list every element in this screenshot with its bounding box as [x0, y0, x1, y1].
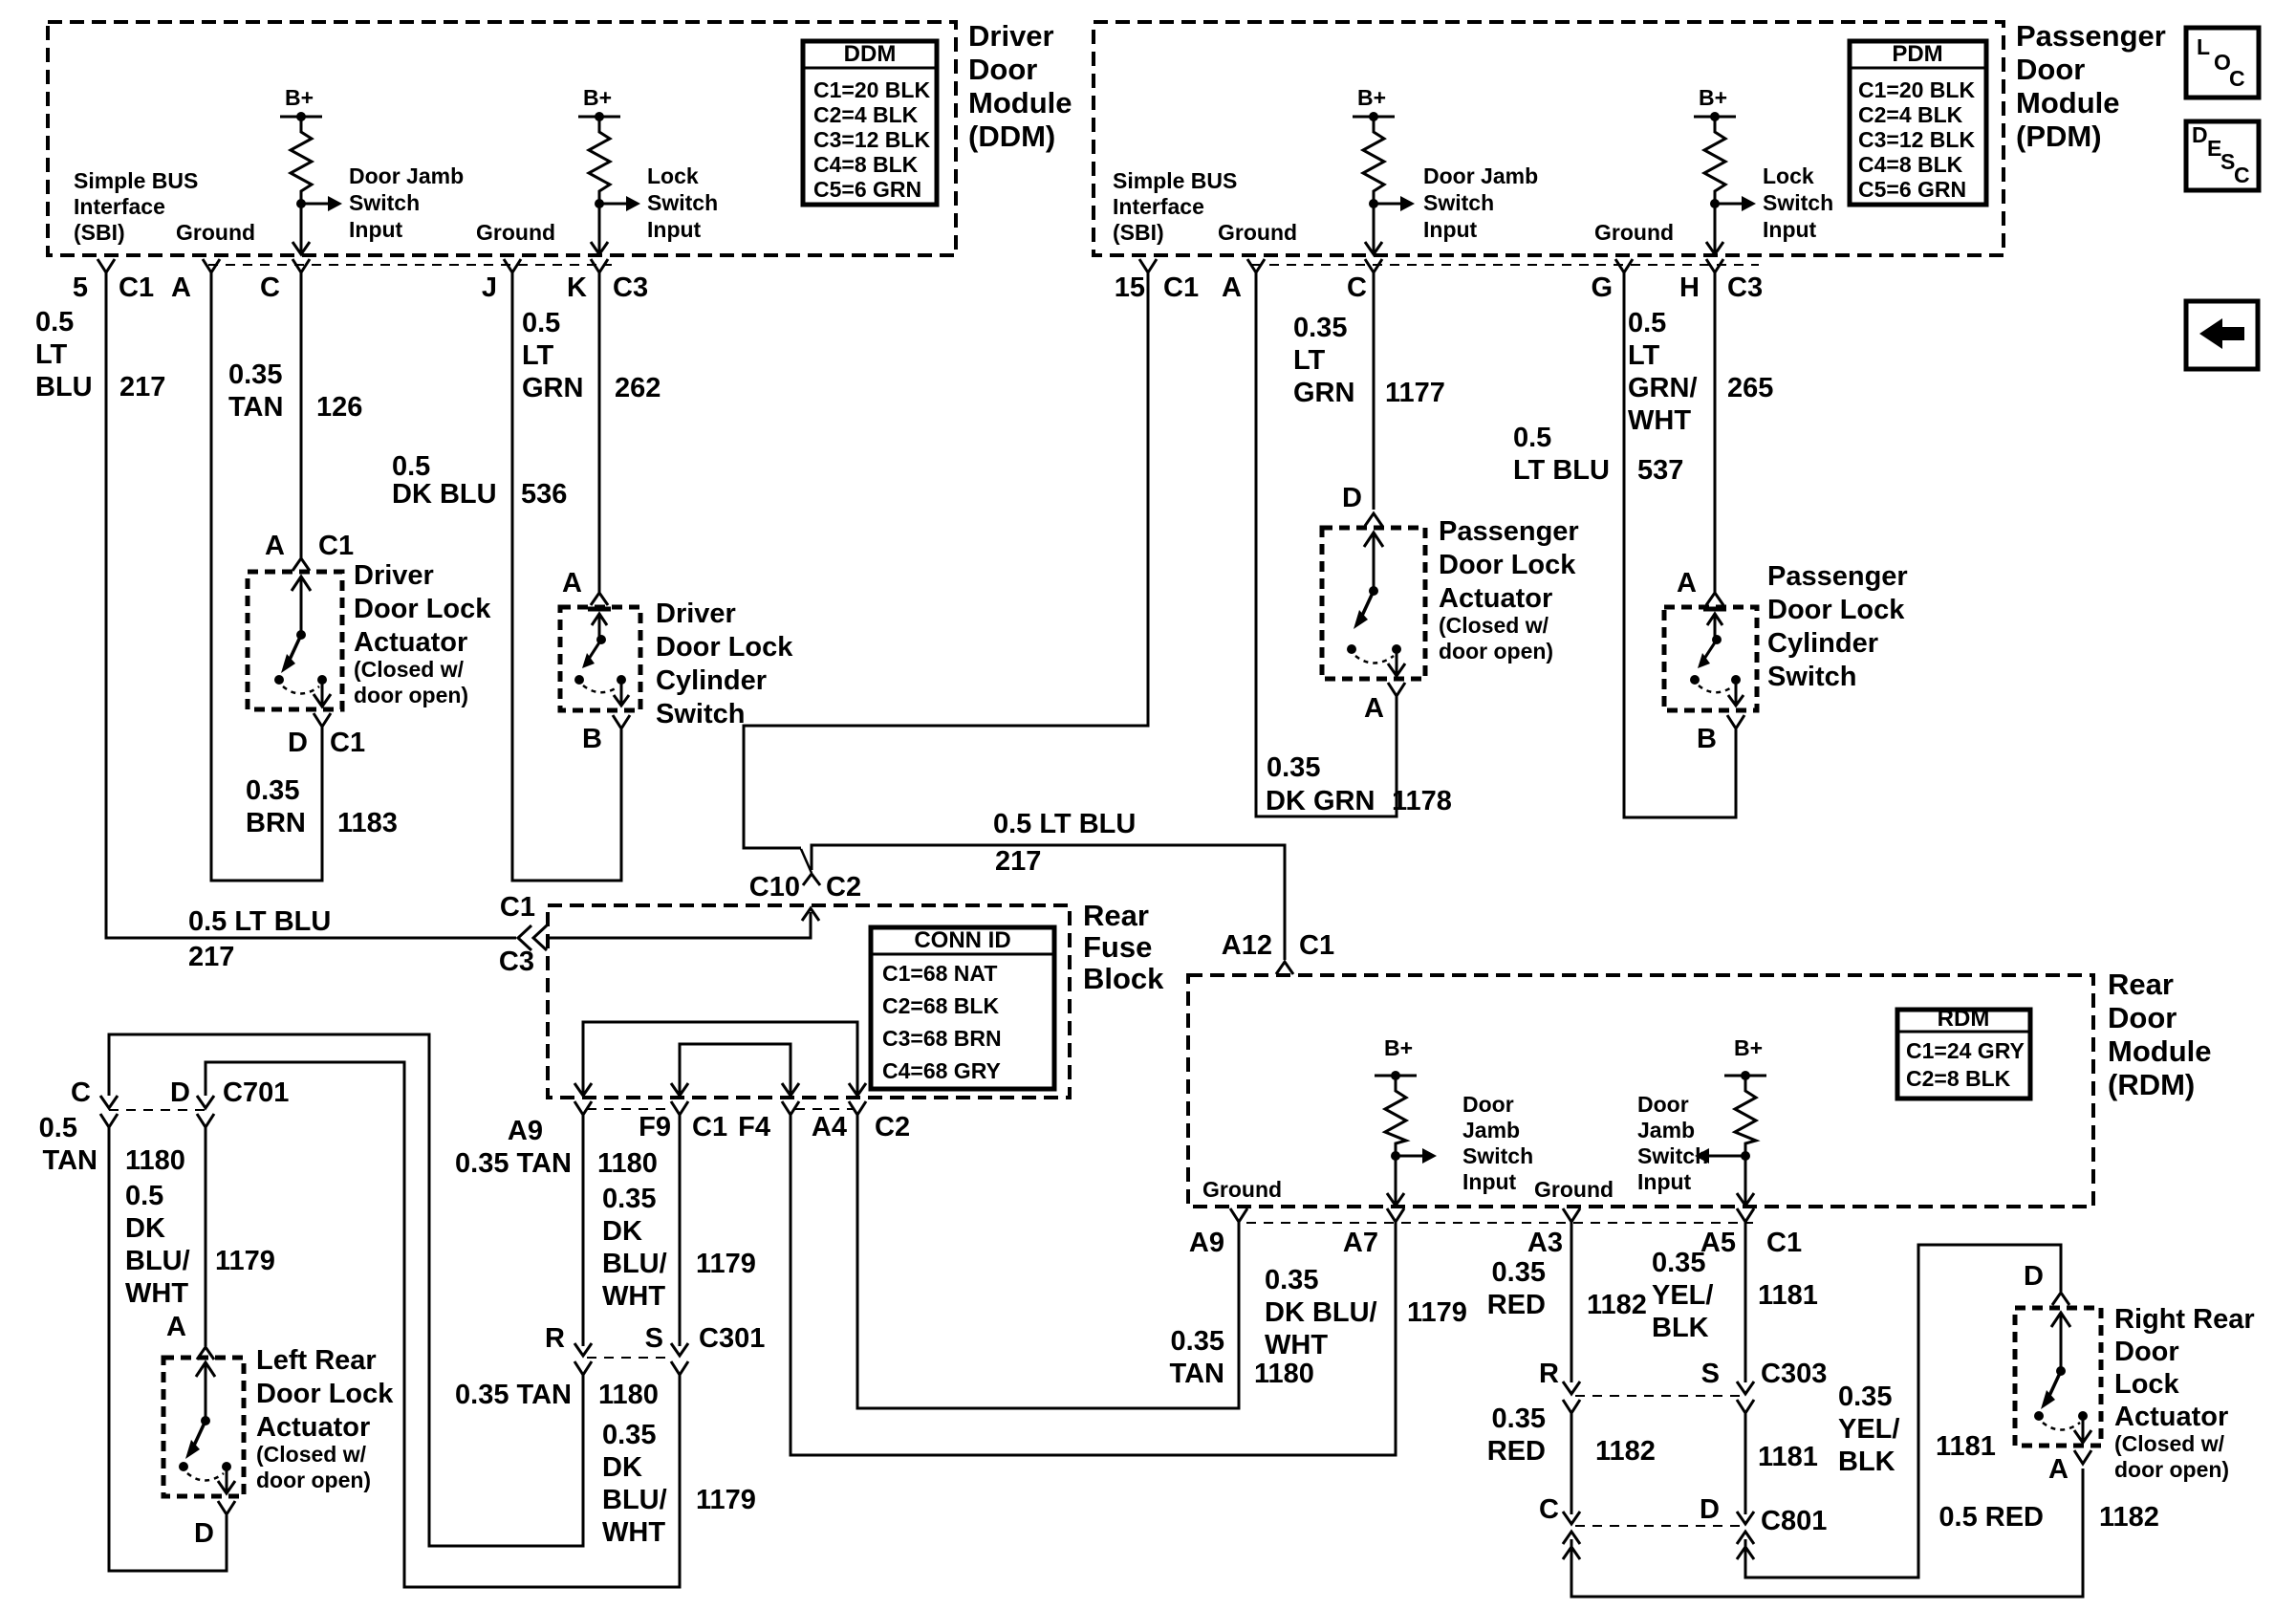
RFB pin F9	[671, 1101, 688, 1115]
driver cylinder pin B fork	[613, 715, 630, 729]
svg-text:C1: C1	[119, 272, 154, 303]
wire 1180 C701 C to left actuator D	[109, 1127, 227, 1571]
svg-text:LT: LT	[522, 340, 554, 371]
svg-text:A: A	[1677, 568, 1697, 598]
DDM connector table	[803, 41, 937, 205]
svg-text:265: 265	[1727, 373, 1773, 403]
wire 1179 below C301 loop to C701 D	[206, 1062, 680, 1587]
svg-text:Input: Input	[1763, 217, 1817, 242]
wire 1180 RFB A4 to RDM A9	[857, 1115, 1239, 1408]
svg-text:Input: Input	[1423, 217, 1478, 242]
svg-text:C2=68 BLK: C2=68 BLK	[882, 993, 999, 1018]
svg-text:C701: C701	[223, 1077, 289, 1108]
svg-text:B+: B+	[1357, 85, 1386, 110]
left actuator pin A chevron	[197, 1347, 214, 1360]
passenger door lock actuator box	[1322, 528, 1425, 679]
svg-text:Door: Door	[2016, 53, 2085, 86]
wire 1177 PDM pin C to passenger actuator D	[1373, 272, 1375, 510]
svg-text:C10: C10	[749, 872, 800, 903]
wire ground DDM pin A to driver actuator D	[211, 272, 322, 881]
rear door module RDM dashed box	[1188, 975, 2093, 1207]
svg-text:1183: 1183	[337, 808, 398, 838]
svg-text:Lock: Lock	[647, 163, 699, 188]
svg-text:C4=8 BLK: C4=8 BLK	[813, 152, 919, 177]
svg-text:Simple BUS: Simple BUS	[1113, 168, 1237, 193]
svg-text:C1: C1	[1299, 930, 1334, 961]
svg-text:D: D	[1700, 1494, 1720, 1525]
C701 pin C	[100, 1096, 118, 1108]
wire 537 PDM pin G to passenger cylinder B	[1624, 272, 1736, 817]
svg-text:GRN/: GRN/	[1628, 373, 1698, 403]
svg-text:A: A	[265, 531, 285, 561]
driver actuator pin D fork	[314, 713, 331, 727]
connector C801 thin dash	[1575, 1525, 1742, 1527]
svg-text:1179: 1179	[1407, 1297, 1467, 1328]
svg-text:PDM: PDM	[1892, 41, 1942, 67]
svg-text:0.5: 0.5	[39, 1113, 77, 1143]
passenger door module PDM dashed box	[1094, 22, 2004, 255]
svg-text:C303: C303	[1761, 1359, 1827, 1389]
svg-text:Passenger: Passenger	[2016, 19, 2166, 53]
driver actuator pin A chevron	[292, 558, 310, 571]
svg-text:C3: C3	[499, 946, 534, 977]
svg-text:Passenger: Passenger	[1767, 561, 1908, 592]
svg-text:Fuse: Fuse	[1083, 930, 1152, 964]
svg-text:C3=12 BLK: C3=12 BLK	[813, 127, 930, 152]
svg-text:15: 15	[1115, 272, 1145, 303]
svg-text:1182: 1182	[1587, 1290, 1647, 1320]
svg-text:K: K	[567, 272, 587, 303]
svg-text:A: A	[171, 272, 191, 303]
svg-text:Actuator: Actuator	[2114, 1402, 2228, 1432]
RFB C2 connector thin dash	[795, 1108, 854, 1110]
svg-text:A12: A12	[1222, 930, 1272, 961]
svg-text:Jamb: Jamb	[1462, 1118, 1520, 1142]
svg-text:D: D	[170, 1077, 190, 1108]
svg-text:0.5: 0.5	[35, 307, 74, 337]
svg-text:RED: RED	[1487, 1436, 1546, 1467]
PDM pin 15 C1	[1139, 259, 1157, 272]
svg-text:1182: 1182	[1595, 1436, 1656, 1467]
RFB pin A9	[574, 1101, 592, 1115]
RFB pin A4	[849, 1101, 866, 1115]
svg-text:GRN: GRN	[1293, 378, 1354, 408]
RDM pin A7	[1387, 1208, 1404, 1222]
svg-text:0.5: 0.5	[125, 1181, 163, 1211]
svg-text:C2=4 BLK: C2=4 BLK	[813, 102, 919, 127]
connector C301 thin dash	[587, 1357, 673, 1359]
svg-text:B+: B+	[583, 85, 612, 110]
svg-text:A5: A5	[1700, 1228, 1736, 1258]
svg-text:0.35 TAN: 0.35 TAN	[455, 1380, 572, 1410]
svg-text:0.35: 0.35	[228, 359, 282, 390]
svg-text:A: A	[166, 1312, 186, 1342]
svg-text:(Closed w/: (Closed w/	[2114, 1431, 2225, 1456]
svg-text:C1=24 GRY: C1=24 GRY	[1906, 1038, 2025, 1063]
svg-text:LT: LT	[1293, 345, 1326, 376]
svg-text:0.35 TAN: 0.35 TAN	[455, 1148, 572, 1179]
svg-text:Door Lock: Door Lock	[656, 632, 793, 663]
svg-text:door open): door open)	[2114, 1457, 2229, 1482]
svg-text:A9: A9	[508, 1116, 543, 1146]
svg-text:0.35: 0.35	[1492, 1403, 1546, 1434]
svg-text:0.5: 0.5	[392, 451, 430, 482]
svg-text:B+: B+	[1699, 85, 1727, 110]
svg-text:BLU/: BLU/	[602, 1249, 667, 1279]
svg-text:C2: C2	[875, 1112, 910, 1142]
svg-text:Door Jamb: Door Jamb	[349, 163, 464, 188]
passenger door lock cylinder switch box	[1664, 607, 1757, 710]
svg-text:Input: Input	[1462, 1169, 1517, 1194]
svg-text:D: D	[2024, 1261, 2044, 1292]
svg-text:Door Lock: Door Lock	[1767, 595, 1905, 625]
svg-text:Right Rear: Right Rear	[2114, 1304, 2255, 1335]
svg-text:0.35: 0.35	[1171, 1326, 1224, 1357]
svg-text:DK: DK	[602, 1216, 642, 1247]
svg-text:A: A	[562, 568, 582, 598]
svg-text:Passenger: Passenger	[1439, 516, 1579, 547]
svg-text:door open): door open)	[354, 683, 468, 707]
svg-text:C1: C1	[692, 1112, 727, 1142]
passenger actuator pin D chevron	[1365, 513, 1382, 526]
wire 1181 RDM A5 down through C303 C801	[1744, 1222, 1747, 1382]
svg-text:R: R	[545, 1323, 565, 1354]
svg-text:Ground: Ground	[1218, 220, 1297, 245]
driver cylinder pin A chevron	[591, 593, 608, 605]
driver door module DDM dashed box	[48, 22, 956, 255]
svg-text:0.35: 0.35	[1838, 1382, 1892, 1412]
svg-text:Ground: Ground	[1534, 1177, 1614, 1202]
svg-text:A: A	[2048, 1454, 2069, 1485]
svg-text:C1: C1	[1766, 1228, 1802, 1258]
wire 217 from PDM pin 15	[744, 272, 1148, 848]
svg-text:217: 217	[995, 846, 1041, 877]
svg-text:Lock: Lock	[2114, 1369, 2180, 1400]
passenger actuator pin A fork	[1388, 683, 1405, 696]
svg-text:BLU/: BLU/	[602, 1485, 667, 1515]
svg-text:DK BLU: DK BLU	[392, 479, 497, 510]
connector C701 thin dash	[109, 1109, 206, 1111]
DDM pin A	[203, 259, 220, 272]
svg-text:(Closed w/: (Closed w/	[1439, 613, 1549, 638]
svg-text:0.35: 0.35	[1267, 752, 1320, 783]
DESC legend box	[2186, 121, 2259, 190]
wire 1179 RFB F9 to C301 S	[679, 1115, 682, 1346]
svg-text:Jamb: Jamb	[1637, 1118, 1695, 1142]
RDM pin A9	[1230, 1208, 1247, 1222]
wire 1182 RDM A3 down through C303 C801	[1570, 1222, 1573, 1382]
svg-text:C3=68 BRN: C3=68 BRN	[882, 1026, 1002, 1051]
C303 pin S	[1737, 1382, 1754, 1394]
svg-text:1180: 1180	[598, 1380, 659, 1410]
svg-text:Door Lock: Door Lock	[256, 1379, 394, 1409]
svg-text:0.5 LT BLU: 0.5 LT BLU	[188, 906, 331, 937]
svg-text:Door Jamb: Door Jamb	[1423, 163, 1538, 188]
svg-text:YEL/: YEL/	[1838, 1414, 1899, 1445]
svg-text:Module: Module	[2016, 86, 2120, 120]
svg-text:537: 537	[1637, 455, 1683, 486]
svg-text:Switch: Switch	[1767, 662, 1856, 692]
DDM pin K C3	[591, 259, 608, 272]
back arrow legend box	[2186, 301, 2258, 369]
svg-text:B+: B+	[1734, 1035, 1763, 1060]
svg-text:LT: LT	[35, 339, 68, 370]
svg-text:Ground: Ground	[1594, 220, 1674, 245]
left actuator pin D fork	[218, 1501, 235, 1514]
svg-text:TAN: TAN	[228, 392, 283, 423]
connector C1 C3 chevrons into rear fuse block	[518, 925, 531, 950]
svg-text:A9: A9	[1189, 1228, 1224, 1258]
svg-text:Cylinder: Cylinder	[656, 665, 767, 696]
svg-text:C1=68 NAT: C1=68 NAT	[882, 961, 997, 986]
svg-text:door open): door open)	[256, 1468, 371, 1492]
wire 217 inside fuse block	[548, 912, 811, 938]
svg-text:Door: Door	[2114, 1337, 2179, 1367]
svg-text:536: 536	[521, 479, 567, 510]
svg-text:(Closed w/: (Closed w/	[354, 657, 465, 682]
svg-text:WHT: WHT	[1265, 1330, 1328, 1360]
svg-text:Ground: Ground	[1202, 1177, 1282, 1202]
right rear door lock actuator box	[2015, 1308, 2101, 1446]
svg-text:(RDM): (RDM)	[2108, 1068, 2195, 1101]
svg-text:WHT: WHT	[602, 1281, 665, 1312]
svg-text:Actuator: Actuator	[256, 1412, 370, 1443]
svg-text:Ground: Ground	[176, 220, 255, 245]
svg-text:0.5 LT BLU: 0.5 LT BLU	[993, 809, 1136, 839]
wire 217 branch to RDM A12	[812, 845, 1285, 960]
svg-text:F9: F9	[639, 1112, 671, 1142]
svg-text:Switch: Switch	[349, 190, 420, 215]
svg-text:CONN ID: CONN ID	[914, 927, 1010, 953]
svg-text:WHT: WHT	[602, 1517, 665, 1548]
svg-text:Left Rear: Left Rear	[256, 1345, 377, 1376]
svg-text:C1: C1	[500, 892, 535, 923]
driver door lock cylinder switch box	[560, 607, 640, 710]
svg-text:Rear: Rear	[2108, 968, 2174, 1001]
wire 126 DDM pin C to driver actuator A	[300, 272, 303, 558]
svg-text:BLK: BLK	[1838, 1447, 1895, 1477]
svg-text:Lock: Lock	[1763, 163, 1814, 188]
svg-text:Driver: Driver	[968, 19, 1054, 53]
svg-text:D: D	[1342, 483, 1362, 513]
svg-text:Module: Module	[968, 86, 1072, 120]
svg-text:door open): door open)	[1439, 639, 1553, 664]
svg-text:Switch: Switch	[647, 190, 718, 215]
RDM pin A5 C1	[1737, 1208, 1754, 1222]
RFB pin F4	[782, 1101, 799, 1115]
svg-text:S: S	[1701, 1359, 1720, 1389]
svg-text:(SBI): (SBI)	[74, 220, 125, 245]
C301 pin R	[574, 1343, 592, 1356]
svg-text:217: 217	[188, 942, 234, 972]
svg-text:S: S	[645, 1323, 663, 1354]
svg-text:A: A	[1222, 272, 1242, 303]
svg-text:Input: Input	[349, 217, 403, 242]
fuse block internal wire F9 to F4	[680, 1044, 791, 1094]
svg-text:1180: 1180	[1254, 1359, 1314, 1389]
DDM connector thin dashed line	[208, 264, 612, 266]
svg-text:YEL/: YEL/	[1652, 1280, 1713, 1311]
svg-text:C3=12 BLK: C3=12 BLK	[1858, 127, 1975, 152]
svg-text:C: C	[1347, 272, 1367, 303]
svg-text:Switch: Switch	[1763, 190, 1833, 215]
svg-text:A3: A3	[1527, 1228, 1563, 1258]
svg-text:1179: 1179	[696, 1249, 756, 1279]
RDM pin A3	[1563, 1208, 1580, 1222]
svg-text:H: H	[1679, 272, 1700, 303]
svg-text:Switch: Switch	[656, 699, 745, 729]
svg-text:LT: LT	[1628, 340, 1660, 371]
svg-text:LT BLU: LT BLU	[1513, 455, 1610, 486]
right actuator pin A fork	[2074, 1450, 2091, 1464]
svg-text:217: 217	[119, 372, 165, 402]
C303 pin R	[1563, 1382, 1580, 1394]
svg-text:Module: Module	[2108, 1034, 2212, 1068]
svg-text:1177: 1177	[1385, 378, 1445, 408]
svg-text:C1=20 BLK: C1=20 BLK	[813, 77, 930, 102]
svg-text:BRN: BRN	[246, 808, 306, 838]
svg-text:DK: DK	[125, 1213, 165, 1244]
wire 1179 RFB F4 to RDM A7	[791, 1115, 1396, 1455]
svg-text:Door: Door	[1637, 1092, 1689, 1117]
right actuator pin D chevron	[2052, 1293, 2069, 1305]
svg-text:C301: C301	[699, 1323, 765, 1354]
driver door lock actuator box	[248, 572, 342, 709]
DDM pin 5 C1	[97, 259, 115, 272]
svg-text:C: C	[2229, 66, 2245, 91]
PDM pin H C3	[1706, 259, 1723, 272]
svg-text:R: R	[1539, 1359, 1559, 1389]
svg-text:1181: 1181	[1758, 1280, 1818, 1311]
svg-text:Driver: Driver	[656, 598, 736, 629]
svg-text:(SBI): (SBI)	[1113, 220, 1164, 245]
CONN ID table	[871, 927, 1054, 1089]
svg-text:C3: C3	[613, 272, 648, 303]
PDM pin A	[1247, 259, 1265, 272]
svg-text:1179: 1179	[215, 1246, 275, 1276]
svg-text:Interface: Interface	[74, 194, 165, 219]
svg-text:A7: A7	[1343, 1228, 1378, 1258]
fuse block internal wire A9 to A4	[583, 1022, 857, 1094]
svg-text:Door Lock: Door Lock	[1439, 550, 1576, 580]
RDM connector table	[1897, 1010, 2030, 1099]
svg-text:0.5: 0.5	[522, 308, 560, 338]
svg-text:1182: 1182	[2099, 1502, 2159, 1533]
wire 217 from DDM pin 5	[106, 272, 516, 938]
svg-text:DK GRN: DK GRN	[1266, 786, 1375, 816]
svg-text:Simple BUS: Simple BUS	[74, 168, 198, 193]
svg-text:Block: Block	[1083, 962, 1164, 995]
svg-text:(Closed w/: (Closed w/	[256, 1442, 367, 1467]
svg-text:C1: C1	[1163, 272, 1199, 303]
C801 pin C	[1563, 1512, 1580, 1524]
svg-text:C: C	[71, 1077, 91, 1108]
svg-text:C2: C2	[826, 872, 861, 903]
svg-text:C1: C1	[330, 728, 365, 758]
wire ground PDM pin A to passenger actuator A	[1256, 272, 1397, 816]
PDM connector table	[1850, 41, 1986, 205]
svg-text:G: G	[1591, 272, 1613, 303]
svg-text:L: L	[2197, 34, 2210, 59]
svg-text:Rear: Rear	[1083, 899, 1149, 932]
svg-text:Door: Door	[1462, 1092, 1514, 1117]
svg-text:126: 126	[316, 392, 362, 423]
svg-text:C: C	[260, 272, 280, 303]
wire 1179 C701 D to left actuator A	[205, 1127, 207, 1346]
svg-text:GRN: GRN	[522, 373, 583, 403]
RFB C1 connector thin dash	[587, 1108, 673, 1110]
PDM connector thin dashed line	[1252, 264, 1759, 266]
svg-text:0.5: 0.5	[1513, 423, 1551, 453]
svg-text:BLU/: BLU/	[125, 1246, 190, 1276]
rear fuse block dashed box	[548, 905, 1070, 1098]
svg-text:BLK: BLK	[1652, 1313, 1709, 1343]
svg-text:(DDM): (DDM)	[968, 120, 1055, 153]
svg-text:0.5 RED: 0.5 RED	[1939, 1502, 2044, 1533]
C701 pin D	[197, 1096, 214, 1108]
svg-text:Input: Input	[647, 217, 702, 242]
svg-text:0.35: 0.35	[602, 1420, 656, 1450]
svg-text:A4: A4	[812, 1112, 847, 1142]
svg-text:C1=20 BLK: C1=20 BLK	[1858, 77, 1975, 102]
svg-text:0.35: 0.35	[602, 1184, 656, 1214]
passenger cylinder pin B fork	[1727, 715, 1744, 729]
connector C10 C2 junction slash	[801, 849, 812, 873]
svg-text:A: A	[1364, 693, 1384, 724]
svg-text:RED: RED	[1487, 1290, 1546, 1320]
svg-text:C5=6 GRN: C5=6 GRN	[1858, 177, 1966, 202]
wire 265 PDM pin H to passenger cylinder A	[1714, 272, 1717, 593]
passenger cylinder pin A chevron	[1706, 593, 1723, 605]
svg-text:(PDM): (PDM)	[2016, 120, 2102, 153]
svg-text:5: 5	[73, 272, 88, 303]
PDM pin C	[1365, 259, 1382, 272]
svg-text:Door Lock: Door Lock	[354, 594, 491, 624]
svg-text:C: C	[2234, 163, 2250, 187]
svg-text:B+: B+	[1384, 1035, 1413, 1060]
svg-text:Actuator: Actuator	[1439, 583, 1552, 614]
svg-text:F4: F4	[738, 1112, 770, 1142]
svg-text:1180: 1180	[125, 1145, 185, 1176]
svg-text:C: C	[1539, 1494, 1559, 1525]
svg-text:Input: Input	[1637, 1169, 1692, 1194]
DDM pin C	[292, 259, 310, 272]
wire 1180 RFB A9 to C301 R	[582, 1115, 585, 1346]
svg-text:Door: Door	[2108, 1001, 2177, 1034]
svg-text:WHT: WHT	[1628, 405, 1691, 436]
svg-text:C4=8 BLK: C4=8 BLK	[1858, 152, 1963, 177]
svg-text:Cylinder: Cylinder	[1767, 628, 1878, 659]
svg-text:C2=4 BLK: C2=4 BLK	[1858, 102, 1963, 127]
left rear door lock actuator box	[163, 1358, 244, 1496]
svg-text:1181: 1181	[1758, 1442, 1818, 1472]
svg-text:0.5: 0.5	[1628, 308, 1666, 338]
svg-text:D: D	[288, 728, 308, 758]
C301 pin S	[671, 1343, 688, 1356]
PDM pin G	[1615, 259, 1633, 272]
svg-text:1178: 1178	[1392, 786, 1452, 816]
svg-text:1181: 1181	[1936, 1431, 1996, 1462]
svg-text:0.35: 0.35	[246, 775, 299, 806]
LOC legend box	[2186, 28, 2259, 98]
svg-text:0.35: 0.35	[1265, 1265, 1318, 1295]
RDM pin A12 C1	[1276, 962, 1293, 974]
svg-text:Driver: Driver	[354, 560, 434, 591]
svg-text:C5=6 GRN: C5=6 GRN	[813, 177, 921, 202]
svg-text:B: B	[1697, 724, 1717, 754]
svg-text:C801: C801	[1761, 1506, 1827, 1536]
RDM connector thin dashed line	[1246, 1222, 1753, 1224]
